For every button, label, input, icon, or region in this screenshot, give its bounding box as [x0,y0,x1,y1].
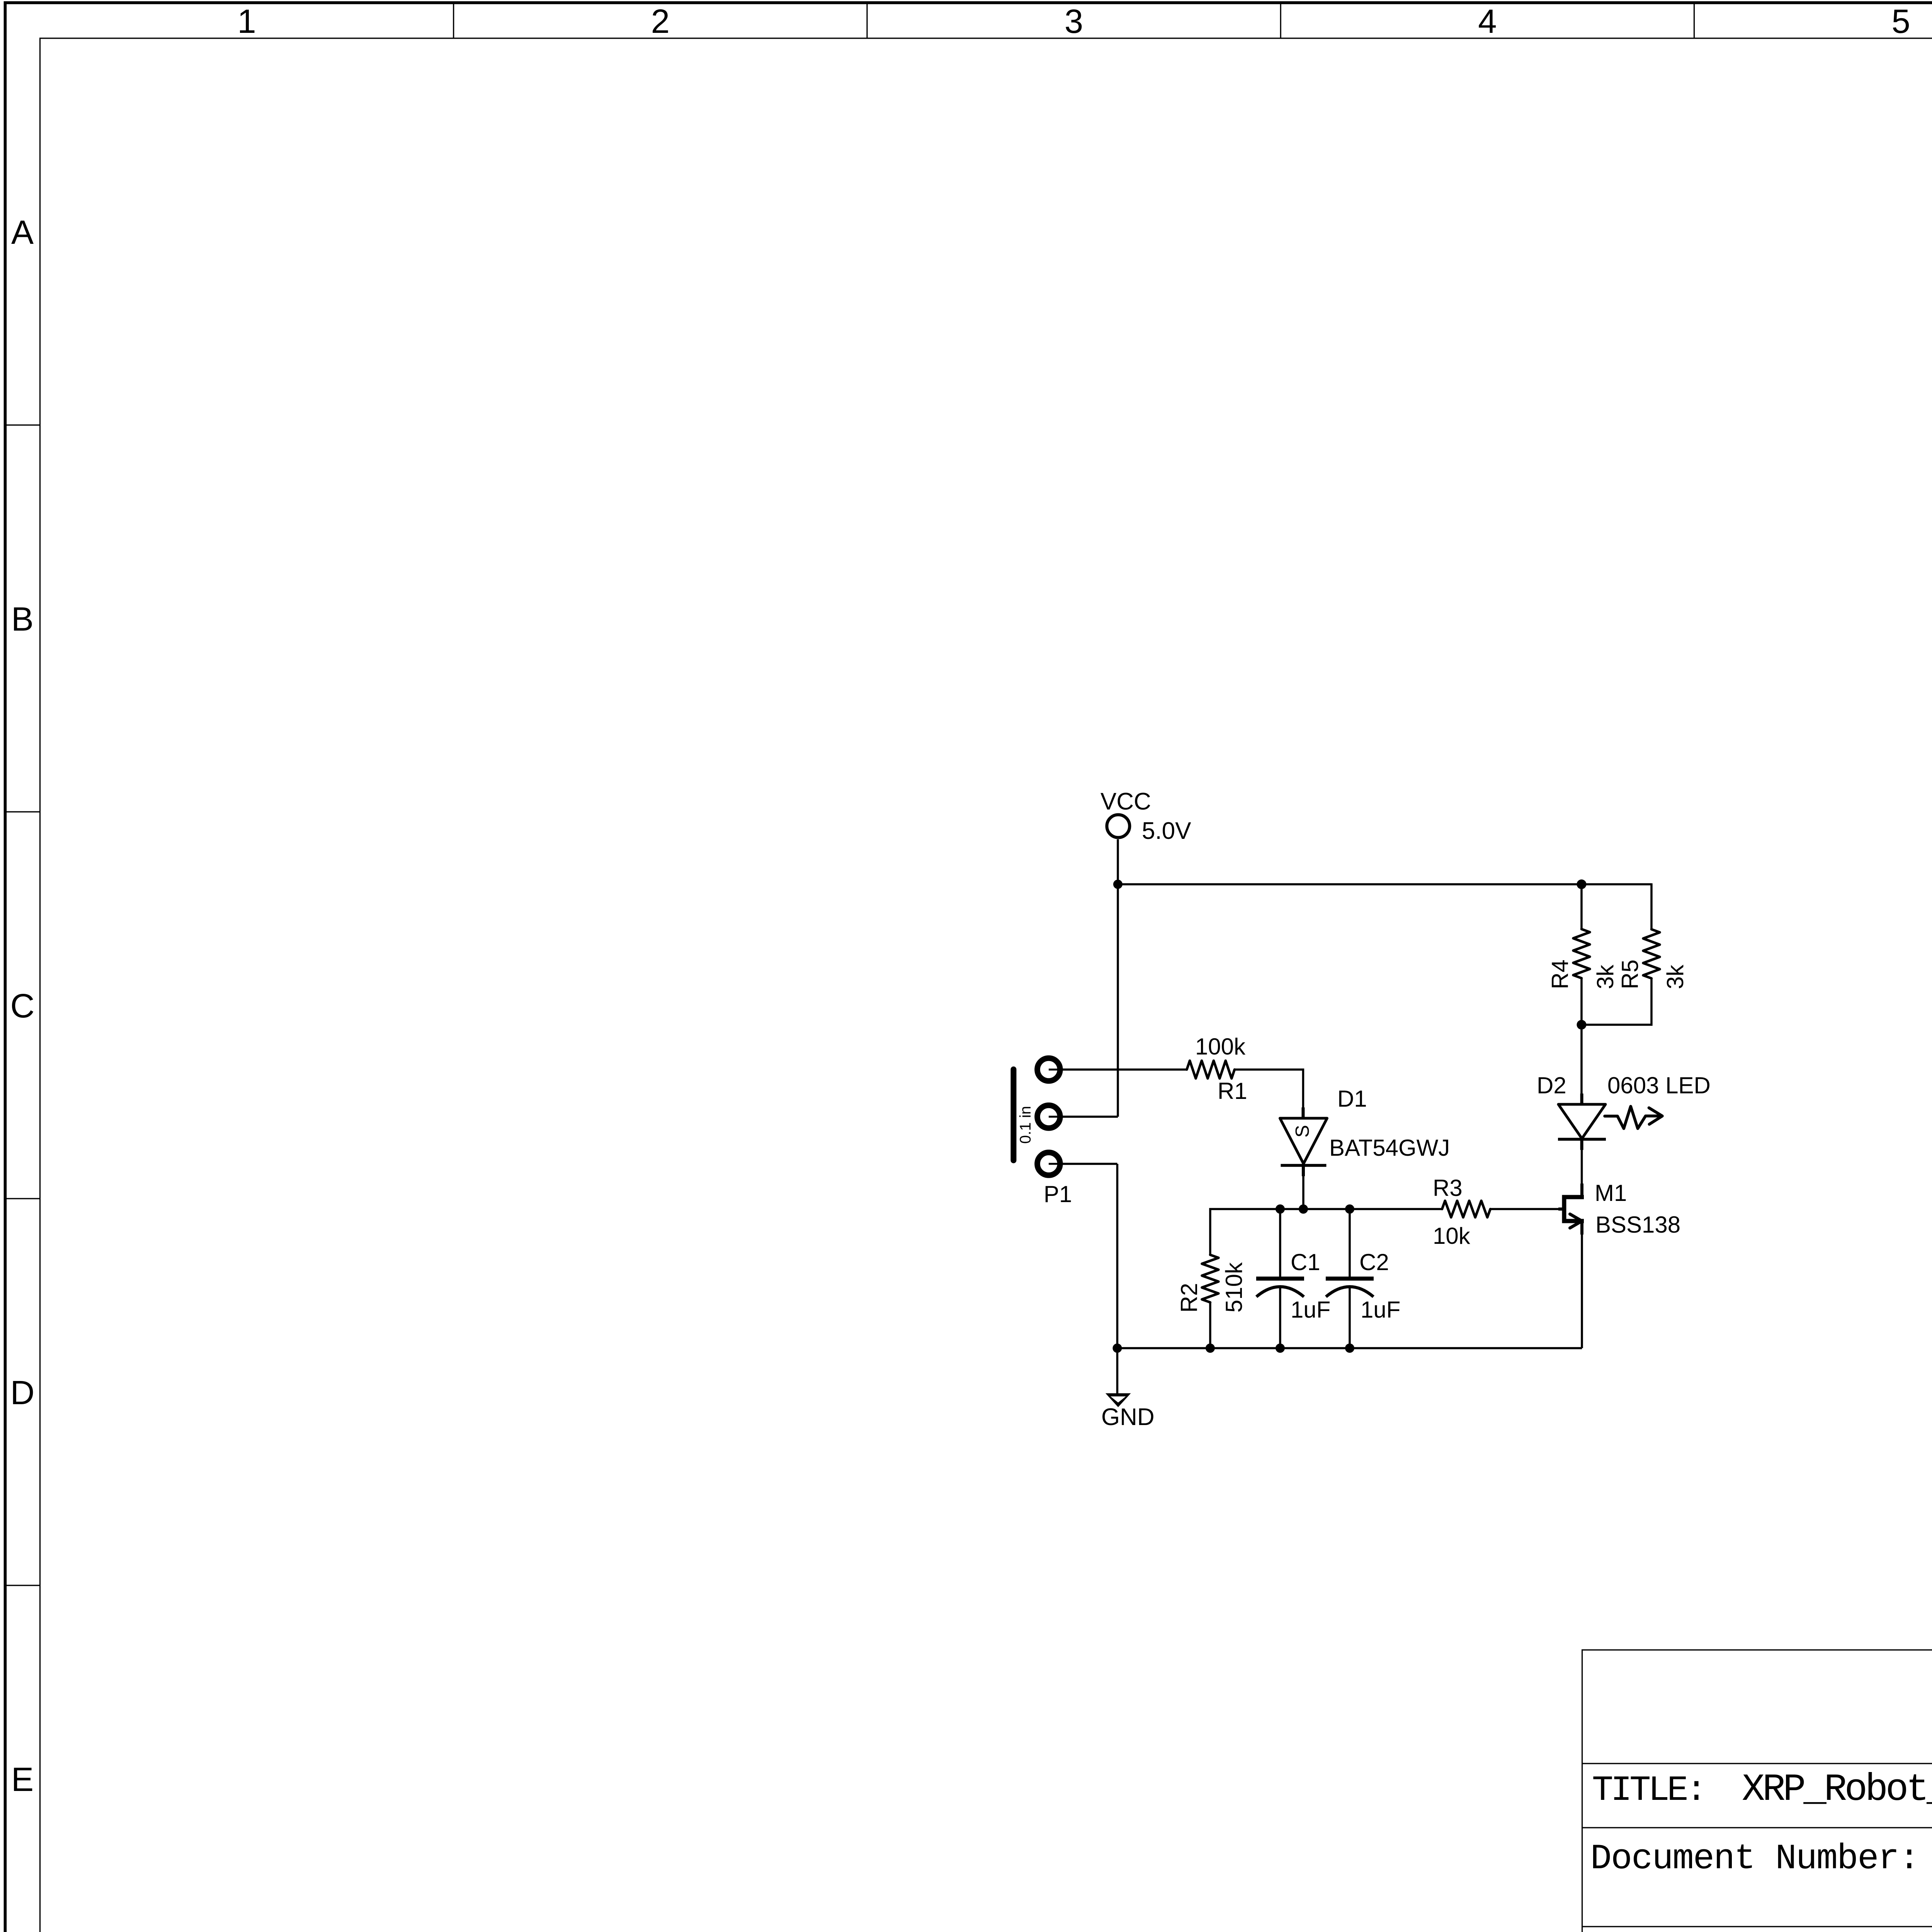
svg-text:3k: 3k [1662,964,1688,989]
svg-text:D2: D2 [1537,1073,1566,1099]
svg-text:BSS138: BSS138 [1595,1212,1680,1238]
svg-text:E: E [11,1761,34,1798]
wire: P1 pin1 to R1 [1049,1068,1187,1071]
svg-text:1uF: 1uF [1361,1297,1400,1323]
wire: C2 top drop [1349,1209,1351,1279]
svg-text:4: 4 [1478,3,1497,40]
connector P1 pin 3 pad [1037,1153,1060,1175]
wire: junction to D2 anode [1580,1025,1583,1104]
junction at VCC/top rail [1113,880,1122,889]
junction at R4 top [1577,879,1587,889]
wire: P1 pin3 to GND drop corner [1049,1163,1117,1165]
junction C1 top [1276,1204,1285,1214]
wire: R4 bottom stub [1580,978,1583,1025]
svg-text:BAT54GWJ: BAT54GWJ [1329,1135,1450,1161]
capacitor C2 1uF [1326,1277,1374,1281]
wire: M1 source to ground rail [1581,1221,1583,1348]
wire: P1 pin2 to VCC drop [1049,1116,1118,1118]
svg-text:10k: 10k [1433,1223,1471,1249]
wire: R4 top stub [1580,884,1583,929]
wire: D1 cathode to gate rail [1302,1165,1304,1209]
svg-text:XRP_Robot_LED: XRP_Robot_LED [1742,1768,1932,1811]
junction C2 bottom [1345,1344,1354,1353]
svg-text:3: 3 [1065,3,1083,40]
wire: gate rail left (R2 top to R3) [1210,1209,1442,1255]
svg-text:VCC: VCC [1100,788,1151,815]
wire: VCC drop from supply circle to P1 pin2 row [1117,839,1119,1117]
junction C1 bottom [1276,1344,1285,1353]
row separator ticks (left strip) [5,425,40,1585]
wire: R5 branch top [1650,883,1653,929]
svg-text:100k: 100k [1195,1034,1246,1060]
svg-text:R1: R1 [1218,1078,1247,1104]
wire: R3 to M1 gate [1490,1208,1562,1210]
svg-text:R4: R4 [1547,959,1573,989]
diode D1 BAT54GWJ (schottky) [1280,1118,1327,1164]
resistor R2 510k (vertical) [1202,1255,1219,1303]
resistor R3 10k (horizontal) [1442,1201,1490,1218]
svg-text:M1: M1 [1595,1180,1627,1206]
transistor M1 BSS138 (n-mosfet) [1564,1197,1584,1221]
svg-text:2: 2 [651,3,670,40]
wire: C2 bottom to ground rail [1349,1287,1351,1348]
capacitor C1 1uF [1256,1277,1304,1281]
svg-text:1: 1 [237,3,256,40]
svg-text:R2: R2 [1176,1283,1202,1313]
junction R2 bottom [1206,1344,1215,1353]
junction ground rail / GND drop [1113,1344,1122,1353]
resistor R1 100k (horizontal) [1187,1061,1235,1078]
wire: R2 bottom to ground rail [1209,1303,1211,1349]
svg-text:D1: D1 [1337,1086,1367,1112]
svg-text:R5: R5 [1617,959,1643,989]
wire: C1 bottom to ground rail [1279,1287,1281,1348]
svg-text:TITLE:: TITLE: [1592,1770,1707,1811]
connector P1 pin 1 pad [1037,1058,1060,1081]
svg-text:C: C [10,987,35,1025]
svg-text:5.0V: 5.0V [1142,818,1191,844]
svg-text:P1: P1 [1044,1181,1072,1207]
svg-text:0.1 in: 0.1 in [1017,1106,1034,1144]
wire: R5 branch bottom [1582,978,1651,1025]
junction at R4/R5 bottom [1577,1020,1587,1030]
svg-text:3k: 3k [1592,964,1618,989]
wire: D2 cathode to M1 drain [1581,1139,1583,1197]
wire: C1 top drop [1279,1209,1281,1279]
column separator ticks (top strip) [454,3,1932,38]
resistor R5 3k (vertical) [1643,929,1660,978]
svg-text:5: 5 [1891,3,1910,40]
connector P1 pin 2 pad [1037,1105,1060,1128]
svg-text:0603 LED: 0603 LED [1607,1073,1711,1099]
wire: top power rail [1118,883,1651,886]
svg-text:S: S [1292,1125,1313,1138]
junction C2 top [1345,1204,1354,1214]
connector P1 body bar [1011,1070,1017,1161]
wire: R1 to D1 anode [1235,1070,1303,1118]
svg-text:1uF: 1uF [1291,1297,1330,1323]
svg-text:GND: GND [1101,1404,1155,1430]
svg-text:A: A [11,214,34,251]
LED D2 [1558,1104,1605,1139]
svg-text:D: D [10,1374,35,1412]
svg-text:R3: R3 [1433,1175,1463,1201]
supply symbol VCC [1107,815,1130,838]
wire: GND drop [1116,1164,1119,1394]
LED D2 emission arrow [1605,1106,1661,1128]
title block outline [1582,1650,1932,1932]
wire: ground rail [1117,1347,1582,1349]
svg-text:C1: C1 [1291,1249,1320,1275]
resistor R4 3k (vertical) [1573,929,1590,978]
junction D1 cathode [1299,1204,1308,1214]
svg-text:510k: 510k [1221,1262,1247,1313]
svg-text:Document Number:: Document Number: [1590,1838,1920,1879]
svg-text:Date: 7/15/2024 1:04:49 PM: Date: 7/15/2024 1:04:49 PM [1590,1930,1932,1932]
svg-text:B: B [11,600,34,638]
svg-text:C2: C2 [1359,1249,1389,1275]
